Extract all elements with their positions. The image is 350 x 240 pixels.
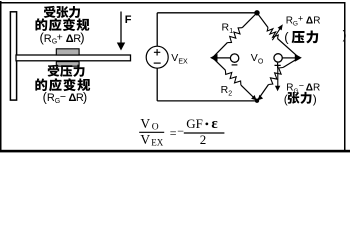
wire top node to R1	[242, 13, 257, 28]
node right with arrow	[295, 54, 302, 62]
svg-text:R: R	[286, 15, 293, 26]
node bottom	[255, 99, 259, 103]
svg-text:V: V	[171, 52, 178, 64]
svg-text:V: V	[140, 132, 150, 147]
wire R1 to left node	[213, 43, 228, 58]
wire bottom rail	[157, 100, 257, 102]
svg-text:F: F	[125, 14, 132, 26]
variable resistor RG-dR (bottom right)	[269, 68, 284, 85]
svg-text:Δ: Δ	[306, 15, 313, 26]
svg-text:+: +	[298, 13, 303, 23]
svg-text:2: 2	[228, 91, 232, 98]
svg-text:•: •	[205, 117, 209, 131]
node top	[254, 10, 259, 15]
wire RG-dR to bottom node	[257, 85, 268, 101]
svg-text:R: R	[313, 15, 320, 26]
frame border right	[344, 2, 346, 152]
svg-text:O: O	[258, 58, 264, 65]
svg-text:): )	[80, 30, 84, 45]
wire R2 to bottom node	[241, 85, 257, 100]
node left with arrow	[210, 54, 218, 62]
svg-text:2: 2	[200, 132, 207, 147]
svg-text:−: −	[177, 124, 184, 138]
variable arrow up	[272, 27, 281, 40]
svg-text:+: +	[57, 32, 63, 44]
wire left node to R2	[213, 58, 226, 70]
svg-text:=: =	[170, 126, 177, 140]
svg-text:(: (	[284, 30, 289, 45]
arrowhead into bottom node from R2	[251, 95, 257, 100]
wire source bottom	[156, 68, 158, 101]
strain gauge bottom (compression)	[56, 62, 79, 67]
svg-text:EX: EX	[178, 58, 188, 65]
svg-text:R: R	[47, 92, 55, 104]
resistor R1	[227, 28, 242, 43]
frame border bottom	[0, 150, 350, 153]
label 的应变规 (bottom)	[35, 78, 47, 91]
svg-text:): )	[313, 92, 317, 106]
label 的应变规 (top)	[35, 18, 47, 31]
beam	[16, 55, 131, 61]
svg-text:−: −	[299, 81, 304, 91]
svg-text:O: O	[152, 123, 159, 133]
wire left node to terminal	[214, 57, 231, 59]
arrowhead into bottom node from right	[258, 95, 264, 101]
wire right node to RG-dR	[283, 58, 299, 68]
svg-text:(: (	[284, 92, 288, 106]
svg-text:EX: EX	[151, 137, 163, 147]
variable resistor RG+dR (top right)	[267, 28, 278, 39]
terminal plus	[274, 54, 282, 62]
terminal minus	[230, 54, 238, 62]
wire source top	[156, 13, 158, 47]
svg-text:1: 1	[229, 28, 233, 35]
voltage source VEX	[146, 46, 168, 68]
resistor R2	[225, 70, 241, 85]
svg-text:GF: GF	[186, 116, 203, 131]
svg-text:ε: ε	[211, 116, 218, 132]
wire top node to RG+dR	[257, 13, 268, 28]
wire right terminal to node	[283, 57, 297, 59]
label 受张力	[44, 6, 56, 18]
svg-text:R: R	[44, 33, 52, 45]
wire RG+dR to right node	[278, 39, 300, 58]
variable arrow down	[277, 66, 279, 86]
svg-text:−: −	[60, 91, 66, 103]
svg-text:V: V	[140, 116, 150, 131]
force arrow F	[120, 12, 122, 44]
wire top rail	[157, 12, 257, 14]
frame border top	[0, 2, 346, 4]
strain gauge top (tension)	[56, 49, 79, 55]
svg-text:V: V	[251, 52, 258, 64]
frame border left	[0, 1, 2, 152]
svg-text:): )	[83, 90, 87, 104]
wall support	[10, 12, 16, 100]
label 受压力	[48, 65, 60, 77]
svg-text:): )	[343, 30, 347, 42]
